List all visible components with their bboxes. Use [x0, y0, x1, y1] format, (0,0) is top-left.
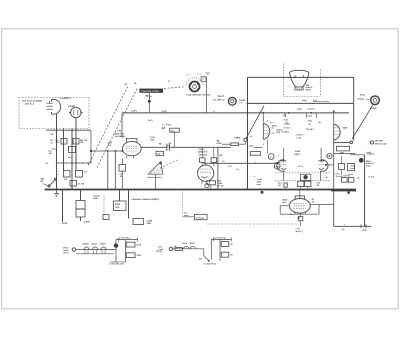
svg-text:wire(?): wire(?)	[308, 108, 315, 111]
svg-text:(P.L.): (P.L.)	[64, 251, 69, 254]
svg-text:sw: sw	[270, 121, 273, 124]
svg-text:12SA7(?): 12SA7(?)	[114, 133, 124, 136]
svg-text:#22 ga: #22 ga	[358, 98, 365, 101]
svg-text:mag: mag	[297, 108, 302, 111]
svg-text:1 MEG: 1 MEG	[234, 136, 241, 139]
svg-text:on line (Pt.2): on line (Pt.2)	[214, 236, 226, 239]
svg-text:1M: 1M	[80, 141, 83, 144]
svg-text:common volume shaft(?): common volume shaft(?)	[132, 198, 160, 201]
svg-text:B-(7): B-(7)	[162, 110, 167, 113]
svg-text:(7): (7)	[286, 121, 289, 124]
svg-text:1,563: 1,563	[295, 150, 301, 153]
svg-text:1 M: 1 M	[117, 130, 121, 133]
svg-text:2-GANG COND.: 2-GANG COND.	[141, 90, 160, 93]
svg-text:68(?): 68(?)	[295, 153, 301, 156]
svg-text:3: 3	[326, 155, 327, 158]
svg-text:Twist: Twist	[360, 93, 366, 96]
svg-text:det amp: det amp	[199, 153, 208, 156]
svg-text:(V4): (V4)	[276, 131, 280, 134]
svg-text:ant: ant	[146, 94, 149, 97]
svg-text:35Z5: 35Z5	[343, 126, 349, 129]
svg-text:12SA7: 12SA7	[91, 242, 98, 245]
svg-text:(Pt.7): (Pt.7)	[306, 89, 312, 92]
svg-text:2,200: 2,200	[84, 221, 90, 224]
svg-text:C7 .05: C7 .05	[78, 183, 85, 186]
svg-text:47K: 47K	[56, 141, 60, 144]
svg-text:SW (on vol): SW (on vol)	[375, 142, 387, 145]
svg-text:1 TRU 3: 1 TRU 3	[296, 133, 304, 136]
svg-text:C6 .05: C6 .05	[217, 185, 224, 188]
svg-text:pair: pair	[351, 167, 355, 170]
svg-text:L7 M: L7 M	[297, 136, 302, 139]
svg-text:x: x	[255, 162, 256, 164]
svg-text:(can): (can)	[367, 151, 372, 154]
svg-text:LINE CORD INT. SW POS.: LINE CORD INT. SW POS.	[187, 93, 212, 96]
svg-text:(3): (3)	[41, 180, 44, 183]
svg-text:12SQ7: 12SQ7	[83, 242, 90, 245]
svg-text:lead: lead	[366, 165, 371, 168]
svg-text:on line (P.L.)(?): on line (P.L.)(?)	[109, 263, 124, 266]
svg-text:Tl(?): Tl(?)	[206, 72, 211, 75]
svg-text:3: 3	[278, 155, 279, 158]
svg-text:shaft: shaft	[93, 197, 98, 200]
svg-text:to p4(?): to p4(?)	[282, 130, 290, 133]
svg-text:10-30 V: 10-30 V	[284, 126, 292, 129]
svg-text:coil: coil	[108, 144, 112, 147]
svg-text:volume control: volume control	[147, 176, 162, 179]
svg-text:470K: 470K	[62, 222, 68, 225]
svg-text:(2): (2)	[46, 162, 49, 165]
svg-text:150 16.2: 150 16.2	[306, 128, 315, 131]
svg-text:on line (Pt.2): on line (Pt.2)	[204, 262, 216, 265]
svg-text:.01: .01	[236, 168, 239, 171]
svg-text:ON-OFF: ON-OFF	[375, 140, 384, 143]
svg-text:47 +C: 47 +C	[298, 165, 304, 168]
svg-text:[ M. A. ]: [ M. A. ]	[25, 103, 34, 106]
svg-text:LAMP: LAMP	[68, 105, 75, 108]
svg-text:(Pt.2): (Pt.2)	[157, 250, 163, 253]
svg-text:5 of tag: 5 of tag	[196, 216, 204, 219]
svg-text:wire(?): wire(?)	[296, 230, 303, 233]
svg-text:500K: 500K	[115, 203, 121, 206]
svg-text:470K: 470K	[217, 142, 223, 145]
svg-text:+(7): +(7)	[283, 114, 287, 117]
svg-text:mag: mag	[302, 99, 307, 102]
svg-text:4.5 B: 4.5 B	[307, 114, 312, 117]
svg-text:to ant: to ant	[369, 176, 375, 179]
svg-text:47K: 47K	[219, 154, 223, 157]
svg-text:(4): (4)	[342, 228, 345, 231]
svg-text:12SQ7(?): 12SQ7(?)	[198, 151, 208, 154]
svg-text:on line (P.L.): on line (P.L.)	[119, 237, 131, 240]
svg-text:12SK7: 12SK7	[100, 242, 107, 245]
svg-text:see TOP p.2: see TOP p.2	[213, 99, 226, 102]
svg-text:PILOT: PILOT	[218, 95, 225, 98]
svg-text:LAMP(?): LAMP(?)	[61, 97, 71, 100]
svg-text:VOL: VOL	[115, 206, 120, 209]
svg-text:rect: rect	[282, 201, 286, 204]
svg-text:C13: C13	[228, 165, 231, 168]
svg-text:135V: 135V	[362, 229, 367, 232]
svg-text:wiper: wiper	[249, 144, 254, 147]
svg-text:SW: SW	[199, 257, 202, 260]
svg-text:B- (l): B- (l)	[148, 119, 153, 122]
svg-text:elect: elect	[257, 183, 262, 186]
svg-text:OUTPUT: OUTPUT	[343, 174, 352, 177]
svg-text:1.5M: 1.5M	[199, 148, 204, 151]
svg-text:ant(?): ant(?)	[131, 110, 137, 113]
svg-text:50L6: 50L6	[272, 124, 278, 127]
svg-text:+: +	[270, 155, 272, 159]
svg-text:converter: converter	[115, 135, 126, 138]
svg-text:2,200: 2,200	[217, 182, 223, 185]
